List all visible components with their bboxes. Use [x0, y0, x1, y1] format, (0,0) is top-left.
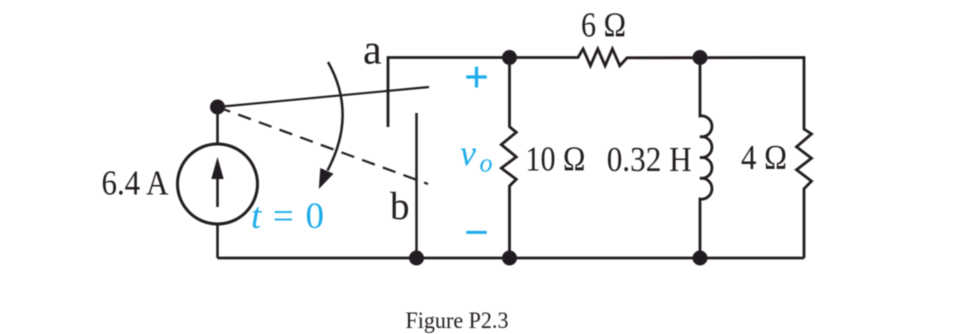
svg-text:v: v [460, 133, 476, 173]
svg-text:o: o [480, 149, 493, 178]
svg-text:4 Ω: 4 Ω [741, 138, 787, 177]
svg-text:6.4 A: 6.4 A [102, 164, 170, 203]
svg-text:10 Ω: 10 Ω [525, 140, 585, 179]
svg-text:0.32 H: 0.32 H [607, 140, 692, 179]
svg-text:t = 0: t = 0 [251, 196, 325, 237]
svg-text:b: b [390, 185, 410, 228]
svg-text:a: a [363, 28, 382, 74]
svg-text:Figure P2.3: Figure P2.3 [406, 308, 509, 334]
svg-text:6 Ω: 6 Ω [581, 6, 626, 45]
